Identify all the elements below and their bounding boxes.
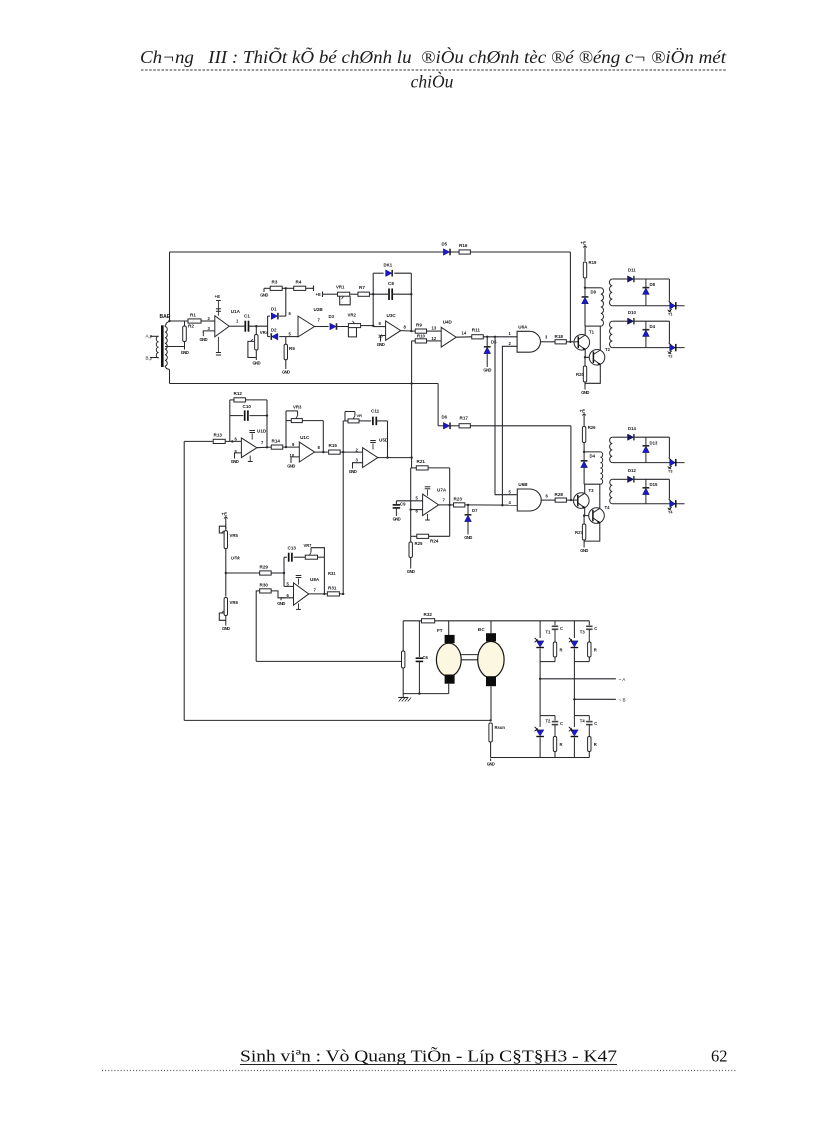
svg-text:GND: GND xyxy=(277,601,285,606)
node pulse line 1 xyxy=(486,336,488,338)
secondary coil 1a xyxy=(609,279,612,306)
wire output B line xyxy=(574,698,616,700)
svg-text:T4: T4 xyxy=(580,719,586,724)
svg-text:GND: GND xyxy=(252,361,260,366)
svg-text:R14: R14 xyxy=(272,438,281,443)
snubber resistor R col A upper xyxy=(553,642,556,657)
resistor R26 xyxy=(582,427,585,443)
wire U1A output xyxy=(229,325,244,327)
node U8A out to VR7 xyxy=(323,593,325,595)
wire sawtooth vertical xyxy=(411,341,413,458)
wire U8A output xyxy=(309,593,328,595)
svg-text:U1D: U1D xyxy=(257,429,267,434)
shaft coupling lines xyxy=(461,655,478,660)
resistor R21 xyxy=(416,466,428,470)
wire current setpoint feedback line xyxy=(256,660,401,662)
svg-text:R3: R3 xyxy=(272,280,278,285)
wire T2 collector up xyxy=(599,326,601,350)
potentiometer VR7 xyxy=(305,548,324,560)
wire emitter node to R20 xyxy=(584,357,586,366)
ground GND under VR6 xyxy=(222,623,230,631)
wire D5 to ground xyxy=(486,354,488,365)
wire VR3 right vertical down xyxy=(322,421,324,453)
diode D16 xyxy=(583,452,585,461)
thyristor Th2 xyxy=(539,716,541,727)
power marks U1D xyxy=(249,431,255,440)
wire R30 left vertical down xyxy=(256,591,260,662)
ground GND under C9 xyxy=(393,514,401,522)
resistor R4 xyxy=(294,286,306,290)
power +E rail U1A xyxy=(216,301,221,316)
wire sawtooth to osc box xyxy=(411,458,413,468)
svg-text:R16: R16 xyxy=(459,243,468,248)
diode D1 xyxy=(271,313,278,320)
svg-text:VR2: VR2 xyxy=(348,313,357,318)
node sawtooth out xyxy=(410,456,412,458)
svg-text:GND: GND xyxy=(393,517,401,522)
ground GND under D5 xyxy=(483,365,491,373)
wire C1 to node xyxy=(249,325,268,327)
svg-text:T3: T3 xyxy=(589,488,595,493)
svg-text:T4: T4 xyxy=(605,505,611,510)
node pulse line 2 xyxy=(494,336,496,338)
resistor R33 xyxy=(402,651,405,668)
svg-text:R27: R27 xyxy=(575,530,583,535)
svg-text:GND: GND xyxy=(407,569,415,574)
svg-text:U5D: U5D xyxy=(379,438,389,443)
wire node to R29 xyxy=(226,572,260,574)
secondary loop 3 top wires xyxy=(612,437,669,457)
AND gate U6B xyxy=(517,489,541,511)
power +E tick after R4 xyxy=(312,286,314,292)
wire node to primary 2 top xyxy=(584,451,600,453)
svg-text:U3C: U3C xyxy=(387,313,397,318)
ground GND at U8A pin xyxy=(281,597,285,599)
wire VR3 to right vertical xyxy=(302,420,323,422)
integrator mid line xyxy=(230,415,267,417)
wire Th4 to bottom rail xyxy=(573,738,575,758)
node setpoint wiper xyxy=(225,572,227,574)
wire R11 to AND gate U6A xyxy=(483,336,517,338)
capacitor C10 xyxy=(245,410,248,421)
ground GND under potentiometer xyxy=(252,358,260,366)
wire snubber B lower to rail xyxy=(588,752,590,758)
node integrator out xyxy=(266,446,268,448)
svg-text:R29: R29 xyxy=(260,565,269,570)
AND gate U6A xyxy=(517,331,540,352)
svg-text:D13: D13 xyxy=(650,440,658,445)
wire shunt to bottom rail xyxy=(490,742,492,758)
op-amp U1C xyxy=(299,442,314,462)
svg-text:D1: D1 xyxy=(271,307,277,312)
thyristor gate output 3 xyxy=(612,457,684,469)
svg-text:GND: GND xyxy=(464,535,472,540)
wire +E to VR1 xyxy=(323,293,338,295)
svg-text:+E: +E xyxy=(222,512,228,517)
node U3C input xyxy=(372,325,374,327)
wire R9 to U4D pin13 xyxy=(427,330,442,332)
svg-text:GND: GND xyxy=(487,762,495,767)
svg-text:GND: GND xyxy=(287,464,295,469)
svg-text:BAÐ: BAÐ xyxy=(160,314,171,320)
thyristor gate output 2 xyxy=(612,342,684,354)
potentiometer VR4 comparator feedback xyxy=(343,412,359,423)
ground GND at U3C pin10 xyxy=(377,339,385,347)
wire T3 collector up xyxy=(584,484,586,493)
wire junction A lower xyxy=(540,715,555,717)
svg-text:GND: GND xyxy=(282,370,290,375)
svg-text:D3: D3 xyxy=(329,314,335,319)
svg-text:U8A: U8A xyxy=(310,577,320,582)
svg-text:R: R xyxy=(594,742,597,747)
diode D6 xyxy=(438,425,443,427)
svg-text:T1: T1 xyxy=(668,313,672,317)
svg-text:VR1: VR1 xyxy=(336,285,345,290)
resistor R18 xyxy=(555,340,566,344)
svg-text:R4: R4 xyxy=(296,280,302,285)
secondary loop 4 top wires xyxy=(612,479,669,498)
resistor R7 xyxy=(358,292,370,296)
diode D4 xyxy=(645,321,647,347)
svg-text:R7: R7 xyxy=(359,285,365,290)
secondary coil 2b xyxy=(610,479,613,504)
wire R1 to U1A pin2 xyxy=(201,320,215,322)
diode D12 xyxy=(628,476,634,482)
wire R23 to AND2 xyxy=(465,504,517,506)
diode D13 xyxy=(645,437,647,462)
wire VR4 to C11 xyxy=(359,420,371,422)
wire C13 left vertical xyxy=(283,557,285,586)
svg-text:GND: GND xyxy=(231,459,239,464)
svg-text:R11: R11 xyxy=(472,328,481,333)
resistor R16 xyxy=(459,250,470,254)
thyristor Th1 xyxy=(535,638,544,648)
resistor R1 xyxy=(188,319,201,323)
transistor T4 xyxy=(589,508,605,524)
ground GND under D7 xyxy=(464,532,472,540)
wire R25 to ground xyxy=(410,558,412,567)
diode D9 xyxy=(584,288,586,297)
wire R20 to ground xyxy=(584,382,586,387)
op-amp U7A xyxy=(423,494,439,515)
wire +E to R26 xyxy=(583,418,585,427)
resistor R24 xyxy=(417,534,429,538)
wire pulse down line left xyxy=(495,337,517,495)
svg-text:U4D: U4D xyxy=(443,320,453,325)
svg-text:U6B: U6B xyxy=(518,482,528,487)
wire bridge column B upper xyxy=(573,621,575,638)
wire R19 to node xyxy=(584,278,586,288)
node control voltage join xyxy=(342,593,344,595)
wire R28 to T3 base xyxy=(567,499,574,501)
wire blocking vertical from top rail xyxy=(569,252,571,342)
wire DC bottom brush to shunt xyxy=(490,686,492,720)
wire top sync rail xyxy=(170,251,571,253)
svg-text:~ A: ~ A xyxy=(619,677,627,682)
svg-text:R: R xyxy=(560,742,563,747)
svg-text:VR: VR xyxy=(357,413,363,418)
wire column A middle xyxy=(539,662,541,716)
svg-text:T1: T1 xyxy=(546,630,552,635)
resistor R3 xyxy=(270,286,282,290)
wire junction B upper xyxy=(574,661,589,663)
svg-text:D5: D5 xyxy=(491,340,497,345)
wire snubber A upper to junction xyxy=(554,657,556,662)
pulse transformer primary coil 1 xyxy=(601,288,604,326)
wire pin6 vertical from R3/R4 node xyxy=(285,288,287,316)
wire R4 to +E tick xyxy=(306,287,314,289)
svg-text:GND: GND xyxy=(181,350,189,355)
svg-text:D14: D14 xyxy=(628,426,636,431)
node base T3 xyxy=(570,499,572,501)
svg-text:GND: GND xyxy=(199,337,207,342)
wire GND to R3 xyxy=(264,287,270,289)
node osc out 1 xyxy=(449,504,451,506)
wire FT bottom brush to ground rail xyxy=(448,684,450,694)
wire R5 to ground xyxy=(285,360,287,367)
svg-text:U6A: U6A xyxy=(518,325,528,330)
thyristor gate output 4 xyxy=(612,498,684,510)
thyristor Th3 xyxy=(569,638,578,648)
power +E tick driver 2 xyxy=(582,414,586,419)
wire R10 to U4D pin12 xyxy=(427,340,442,342)
secondary loop 2 top wires xyxy=(612,321,669,342)
svg-text:T2: T2 xyxy=(668,354,672,358)
resistor R10 xyxy=(415,339,426,343)
ground GND at U5D pin3 xyxy=(349,466,357,474)
wire VR7 to right vertical xyxy=(318,556,325,558)
resistor R15 xyxy=(329,450,341,454)
resistor R27 xyxy=(582,524,585,540)
wire D5 stub xyxy=(486,337,488,347)
svg-text:R21: R21 xyxy=(417,459,426,464)
svg-text:C9: C9 xyxy=(400,502,406,507)
resistor R2 xyxy=(183,326,187,342)
wire bottom rail down to D6 xyxy=(437,384,439,426)
op-amp U4D xyxy=(441,327,456,347)
diode D3 xyxy=(330,323,337,330)
ground GND under shunt xyxy=(487,759,495,767)
node integrator mid right xyxy=(266,414,268,416)
wire U1C output xyxy=(315,451,328,453)
svg-text:GND: GND xyxy=(581,390,589,395)
resistor R25 xyxy=(409,542,412,558)
diode D15 xyxy=(645,479,647,504)
potentiometer VR5a below C1 node xyxy=(248,326,258,357)
svg-text:T3: T3 xyxy=(668,469,672,473)
svg-text:U2B: U2B xyxy=(314,307,324,312)
snubber resistor R col B upper xyxy=(588,642,591,657)
wire snubber A lower to rail xyxy=(554,752,556,758)
wire tacho box left vertical xyxy=(402,621,404,651)
diode D8 xyxy=(645,279,647,306)
svg-text:VR3: VR3 xyxy=(293,405,302,410)
svg-text:R17: R17 xyxy=(460,416,469,421)
wire emitter node to R27 xyxy=(583,516,585,524)
wire node to R1 xyxy=(170,320,189,322)
wire U7A output xyxy=(439,504,454,506)
wire junction A upper xyxy=(540,661,555,663)
node cap to ground rail xyxy=(418,692,420,694)
capacitor C8 xyxy=(389,288,392,300)
svg-text:U7A: U7A xyxy=(437,488,447,493)
svg-text:FT: FT xyxy=(437,628,443,633)
wire U1D pin5 stub xyxy=(235,453,242,456)
power +E tick driver 1 xyxy=(583,246,587,251)
node base T1 xyxy=(569,341,571,343)
diode D5 xyxy=(484,347,491,354)
power marks U8A xyxy=(296,576,302,585)
node U5D out feedback xyxy=(386,456,388,458)
svg-text:D7: D7 xyxy=(472,508,478,513)
svg-text:D6: D6 xyxy=(442,415,448,420)
integrator box left vertical xyxy=(229,400,231,442)
wire T2 emitter down xyxy=(585,365,600,384)
svg-text:D4: D4 xyxy=(650,324,656,329)
wire column B middle xyxy=(573,662,575,716)
ground GND under R2 xyxy=(181,347,189,355)
svg-text:R13: R13 xyxy=(214,433,223,438)
wire control voltage vertical xyxy=(342,452,344,594)
node sync input junction xyxy=(168,320,170,322)
svg-text:R10: R10 xyxy=(417,333,425,338)
integrator box right vertical xyxy=(266,400,268,447)
wire R27 to ground xyxy=(583,540,585,545)
tachogenerator FT xyxy=(436,635,461,684)
node shunt top xyxy=(489,719,491,721)
potentiometer VR1 xyxy=(338,292,351,305)
op-amp U8A xyxy=(294,583,309,605)
motor DC xyxy=(478,633,504,686)
power marks U5D xyxy=(370,441,376,450)
capacitor C14 xyxy=(418,621,420,657)
osc box top edge xyxy=(411,467,450,469)
wire comparator feedback right vertical xyxy=(387,421,389,458)
wire pin6 from box vertical xyxy=(411,509,423,511)
ground GND at U1D pin5 xyxy=(231,456,239,464)
svg-text:C6: C6 xyxy=(423,655,429,660)
svg-text:R26: R26 xyxy=(588,425,596,430)
wire bridge column A upper xyxy=(539,621,541,638)
node osc out to up line xyxy=(501,504,503,506)
svg-text:R31: R31 xyxy=(328,571,336,576)
wire R14 to U1C input xyxy=(283,446,300,448)
node driver2 top xyxy=(583,451,585,453)
power marks U7A xyxy=(425,487,431,496)
svg-text:R2: R2 xyxy=(188,324,194,329)
svg-text:C10: C10 xyxy=(243,404,252,409)
svg-text:+E: +E xyxy=(580,409,586,414)
wire T1 collector up xyxy=(584,326,586,335)
thyristor gate output 1 xyxy=(612,300,684,312)
wire feedback bottom rail xyxy=(184,719,490,721)
svg-text:Sinh viªn : Vò Quang TiÕn - Lí: Sinh viªn : Vò Quang TiÕn - Líp C§T§H3 -… xyxy=(240,1047,617,1066)
wire pin5 entry U8A xyxy=(284,585,294,587)
node feedback right mid xyxy=(410,293,412,295)
wire DC top brush to rail xyxy=(490,621,492,633)
node comparator input xyxy=(342,451,344,453)
thyristor Th4 xyxy=(573,716,575,727)
resistor R11 xyxy=(472,335,484,339)
capacitor C9 at U7A xyxy=(396,501,422,504)
svg-text:+E: +E xyxy=(581,241,587,246)
wire R18 to T1 base xyxy=(566,341,573,343)
svg-text:A,p: A,p xyxy=(146,334,153,339)
svg-text:T1: T1 xyxy=(589,330,595,335)
wire Th2 to bottom rail xyxy=(539,738,541,758)
node emitter T1 xyxy=(584,356,586,358)
svg-text:Rsun: Rsun xyxy=(495,725,506,730)
op-amp U1D xyxy=(241,438,256,458)
svg-text:R: R xyxy=(594,648,597,653)
wire U4D output xyxy=(456,336,472,338)
wire tacho ground rail xyxy=(403,693,449,695)
svg-text:C1: C1 xyxy=(244,314,250,319)
op-amp U3C xyxy=(386,321,401,340)
resistor R28 xyxy=(555,498,566,502)
svg-text:13: 13 xyxy=(432,326,437,331)
comparator feedback vertical up xyxy=(342,421,344,452)
svg-text:GND: GND xyxy=(222,626,230,631)
svg-text:GND: GND xyxy=(349,469,357,474)
wire bridge bottom rail xyxy=(491,757,590,759)
wire channel 2 blocking vertical xyxy=(570,426,572,500)
wire left frame upper xyxy=(169,252,171,321)
svg-text:T2: T2 xyxy=(605,347,611,352)
diode D7 xyxy=(467,505,469,515)
feedback box DK1 top edge xyxy=(373,272,411,274)
capacitor C13 xyxy=(284,556,305,558)
svg-text:D9: D9 xyxy=(591,290,597,295)
svg-text:D8: D8 xyxy=(650,282,656,287)
svg-text:D15: D15 xyxy=(650,482,658,487)
node feedback mid xyxy=(372,293,374,295)
wire U3C pin10 stub xyxy=(381,336,386,340)
svg-text:R18: R18 xyxy=(555,334,564,339)
wire bottom sync rail xyxy=(170,383,439,385)
node U1C out to VR3 xyxy=(322,451,324,453)
wire U5D output xyxy=(378,457,412,459)
wire C11 to right vertical xyxy=(376,420,387,422)
resistor R30 xyxy=(260,589,272,593)
node bottom rail to sawtooth branch xyxy=(410,382,412,384)
wire R15 to U5D input node xyxy=(340,451,363,453)
transistor T2 xyxy=(589,350,605,366)
svg-text:R1: R1 xyxy=(190,313,196,318)
ground GND left of R3 xyxy=(260,290,268,298)
transistor T1 xyxy=(574,335,590,351)
wire node into U3C pin9 xyxy=(373,326,385,328)
wire R13 to U1D pin xyxy=(225,440,241,442)
wire to R5 xyxy=(285,337,287,344)
svg-text:R23: R23 xyxy=(454,496,463,501)
op-amp U5D xyxy=(363,448,378,468)
capacitor C1 xyxy=(245,321,248,332)
wire R3 to node xyxy=(282,287,294,289)
wire U3C output xyxy=(401,330,416,333)
secondary coil 1b xyxy=(610,321,613,347)
svg-text:B,p: B,p xyxy=(146,356,153,361)
wire left frame lower xyxy=(169,370,171,384)
wire junction B lower xyxy=(574,715,589,717)
wire Th1 to junction A xyxy=(539,649,541,662)
wire feedback left frame vertical xyxy=(183,441,185,720)
wire U1D output xyxy=(257,446,271,449)
osc box left vertical xyxy=(410,468,412,536)
svg-text:GND: GND xyxy=(483,368,491,373)
svg-text:C13: C13 xyxy=(288,546,297,551)
resistor R17 xyxy=(459,424,470,428)
